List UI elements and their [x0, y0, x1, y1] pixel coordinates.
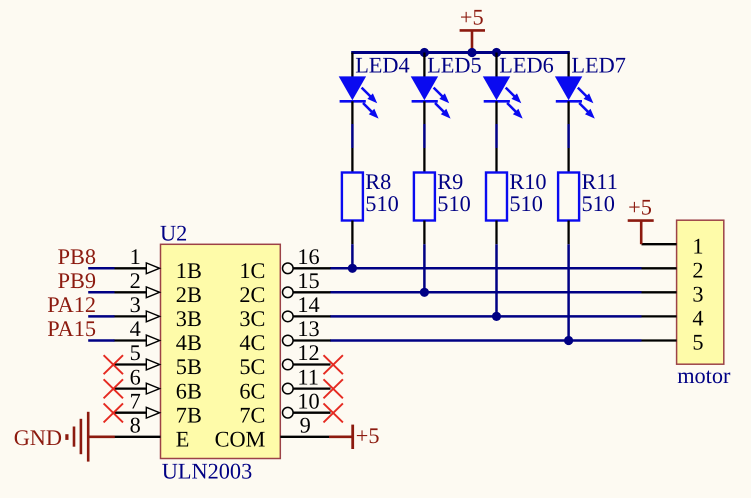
svg-text:LED5: LED5: [427, 52, 482, 77]
pin R8 bottom: [351, 221, 353, 245]
no-ERC X pin 7: [104, 403, 123, 422]
svg-text:LED6: LED6: [499, 52, 554, 77]
junction dot R8/bus: [348, 264, 357, 273]
svg-text:PB8: PB8: [58, 244, 96, 269]
svg-text:1: 1: [692, 233, 703, 258]
svg-text:5: 5: [130, 340, 141, 365]
svg-text:LED4: LED4: [355, 52, 410, 77]
power port +5 (pin 9): [329, 423, 380, 449]
wire/pin LED5 anode: [423, 53, 425, 78]
svg-text:15: 15: [297, 268, 319, 293]
svg-text:PA15: PA15: [47, 316, 96, 341]
wire R9 to bus: [423, 244, 426, 292]
pin R10 bottom: [495, 221, 497, 245]
pin 8 wire: [114, 436, 161, 438]
ground GND power port: [14, 412, 115, 462]
power port +5 (motor pin 1): [628, 194, 654, 244]
op-amp/IC U2 ULN2003 body: [161, 244, 281, 458]
wire LED5-R9: [423, 124, 426, 148]
junction dot R11/bus: [564, 336, 573, 345]
svg-text:+5: +5: [356, 423, 380, 448]
pin R8 top: [351, 148, 353, 173]
pin 10 wire: [293, 412, 330, 414]
svg-text:2: 2: [130, 268, 141, 293]
junction dot R9/bus: [420, 288, 429, 297]
motor pin 5 wire: [642, 339, 677, 341]
svg-text:3C: 3C: [239, 306, 265, 331]
pin 5 input arrow: [146, 359, 159, 370]
pin 15 inverted-output circle: [283, 287, 294, 298]
svg-text:ULN2003: ULN2003: [162, 459, 252, 484]
pin 13 inverted-output circle: [283, 335, 294, 346]
svg-text:+5: +5: [460, 5, 484, 30]
pin 14 inverted-output circle: [283, 311, 294, 322]
wire 2C(15)-motor3: [330, 291, 642, 294]
svg-text:510: 510: [582, 191, 615, 216]
svg-text:2C: 2C: [239, 282, 265, 307]
svg-text:U2: U2: [160, 220, 187, 245]
svg-text:4C: 4C: [239, 330, 265, 355]
svg-text:COM: COM: [215, 427, 266, 452]
svg-text:510: 510: [365, 191, 398, 216]
svg-text:E: E: [176, 427, 190, 452]
resistor R11: [558, 173, 579, 221]
pin 9 wire: [280, 436, 329, 438]
motor pin 1 wire: [642, 243, 677, 245]
svg-text:LED7: LED7: [571, 52, 626, 77]
LED LED4 symbol: [339, 76, 379, 118]
pin 13 wire: [293, 339, 330, 341]
svg-text:12: 12: [297, 340, 319, 365]
no-ERC X pin 12: [324, 355, 343, 374]
wire/pin LED7 anode: [567, 53, 569, 78]
LED LED5 symbol: [411, 76, 451, 118]
pin 6 input arrow: [146, 383, 159, 394]
wire 3C(14)-motor4: [330, 315, 642, 318]
junction dot rail/+5 stem: [467, 48, 476, 57]
pin 3 wire: [114, 315, 148, 317]
svg-text:13: 13: [297, 316, 319, 341]
LED LED6 symbol: [483, 76, 523, 118]
svg-text:5C: 5C: [239, 354, 265, 379]
wire 1C(16)-motor2: [330, 267, 642, 270]
power port +5 (top rail): [460, 5, 485, 54]
pin 10 inverted-output circle: [283, 407, 294, 418]
svg-text:1: 1: [130, 244, 141, 269]
pin 1 input arrow: [146, 263, 159, 274]
no-ERC X pin 11: [324, 379, 343, 398]
svg-text:6: 6: [130, 364, 141, 389]
svg-text:16: 16: [297, 244, 319, 269]
pin 11 inverted-output circle: [283, 383, 294, 394]
pin 2 wire: [114, 291, 148, 293]
svg-text:+5: +5: [628, 194, 652, 219]
pin R9 bottom: [423, 221, 425, 245]
pin R11 bottom: [567, 221, 569, 245]
resistor R9: [414, 173, 435, 221]
svg-text:9: 9: [300, 413, 311, 438]
svg-text:motor: motor: [677, 363, 731, 388]
wire +5 rail: [351, 51, 570, 54]
svg-text:8: 8: [130, 413, 141, 438]
svg-text:6C: 6C: [239, 378, 265, 403]
pin R10 top: [495, 148, 497, 173]
svg-text:4: 4: [692, 306, 703, 331]
wire/pin LED7 cathode: [567, 101, 569, 124]
junction dot rail/LED5: [420, 48, 429, 57]
svg-text:7C: 7C: [239, 402, 265, 427]
pin 5 wire: [114, 363, 148, 365]
svg-text:14: 14: [297, 292, 319, 317]
junction dot R10/bus: [492, 312, 501, 321]
svg-text:GND: GND: [14, 425, 62, 450]
pin 7 input arrow: [146, 407, 159, 418]
pin 16 wire: [293, 267, 330, 269]
svg-text:510: 510: [509, 191, 542, 216]
svg-text:11: 11: [297, 364, 318, 389]
motor pin 2 wire: [642, 267, 677, 269]
svg-text:2: 2: [692, 257, 703, 282]
pin 6 wire: [114, 387, 148, 389]
pin 12 inverted-output circle: [283, 359, 294, 370]
motor pin 3 wire: [642, 291, 677, 293]
svg-text:3B: 3B: [176, 306, 202, 331]
pin 4 wire: [114, 339, 148, 341]
motor pin 4 wire: [642, 315, 677, 317]
svg-text:5B: 5B: [176, 354, 202, 379]
wire/pin LED5 cathode: [423, 101, 425, 124]
wire LED4-R8: [351, 124, 354, 148]
svg-text:2B: 2B: [176, 282, 202, 307]
resistor R8: [342, 173, 363, 221]
pin 4 input arrow: [146, 335, 159, 346]
svg-text:7B: 7B: [176, 402, 202, 427]
wire LED7-R11: [567, 124, 570, 148]
svg-text:1B: 1B: [176, 258, 202, 283]
pin 15 wire: [293, 291, 330, 293]
no-ERC X pin 10: [324, 403, 343, 422]
wire net PB8: [88, 267, 114, 270]
pin 2 input arrow: [146, 287, 159, 298]
svg-text:7: 7: [130, 388, 141, 413]
wire LED6-R10: [495, 124, 498, 148]
pin 14 wire: [293, 315, 330, 317]
wire/pin LED6 anode: [495, 53, 497, 78]
wire/pin LED6 cathode: [495, 101, 497, 124]
svg-text:10: 10: [297, 388, 319, 413]
wire/pin LED4 cathode: [351, 101, 353, 124]
no-ERC X pin 5: [104, 355, 123, 374]
pin 7 wire: [114, 412, 148, 414]
svg-text:1C: 1C: [239, 258, 265, 283]
wire net PA12: [88, 315, 114, 318]
wire R8 to bus: [351, 244, 354, 268]
svg-text:3: 3: [130, 292, 141, 317]
svg-text:510: 510: [437, 191, 470, 216]
svg-text:4B: 4B: [176, 330, 202, 355]
pin R9 top: [423, 148, 425, 173]
wire/pin LED4 anode: [351, 53, 353, 78]
connector motor body: [677, 220, 724, 364]
wire net PB9: [88, 291, 114, 294]
pin 1 wire: [114, 267, 148, 269]
wire 4C(13)-motor5: [330, 339, 642, 342]
LED LED7 symbol: [555, 76, 595, 118]
svg-text:PB9: PB9: [58, 268, 96, 293]
no-ERC X pin 6: [104, 379, 123, 398]
junction dot rail/LED6: [492, 48, 501, 57]
pin 12 wire: [293, 363, 330, 365]
svg-text:3: 3: [692, 281, 703, 306]
svg-text:PA12: PA12: [47, 292, 96, 317]
pin 16 inverted-output circle: [283, 263, 294, 274]
pin R11 top: [567, 148, 569, 173]
pin 11 wire: [293, 387, 330, 389]
svg-text:5: 5: [692, 330, 703, 355]
svg-text:6B: 6B: [176, 378, 202, 403]
wire R11 to bus: [567, 244, 570, 340]
wire net PA15: [88, 339, 114, 342]
svg-text:4: 4: [130, 316, 141, 341]
pin 3 input arrow: [146, 311, 159, 322]
wire R10 to bus: [495, 244, 498, 316]
resistor R10: [486, 173, 507, 221]
wire GND to pin 8: [88, 435, 115, 438]
